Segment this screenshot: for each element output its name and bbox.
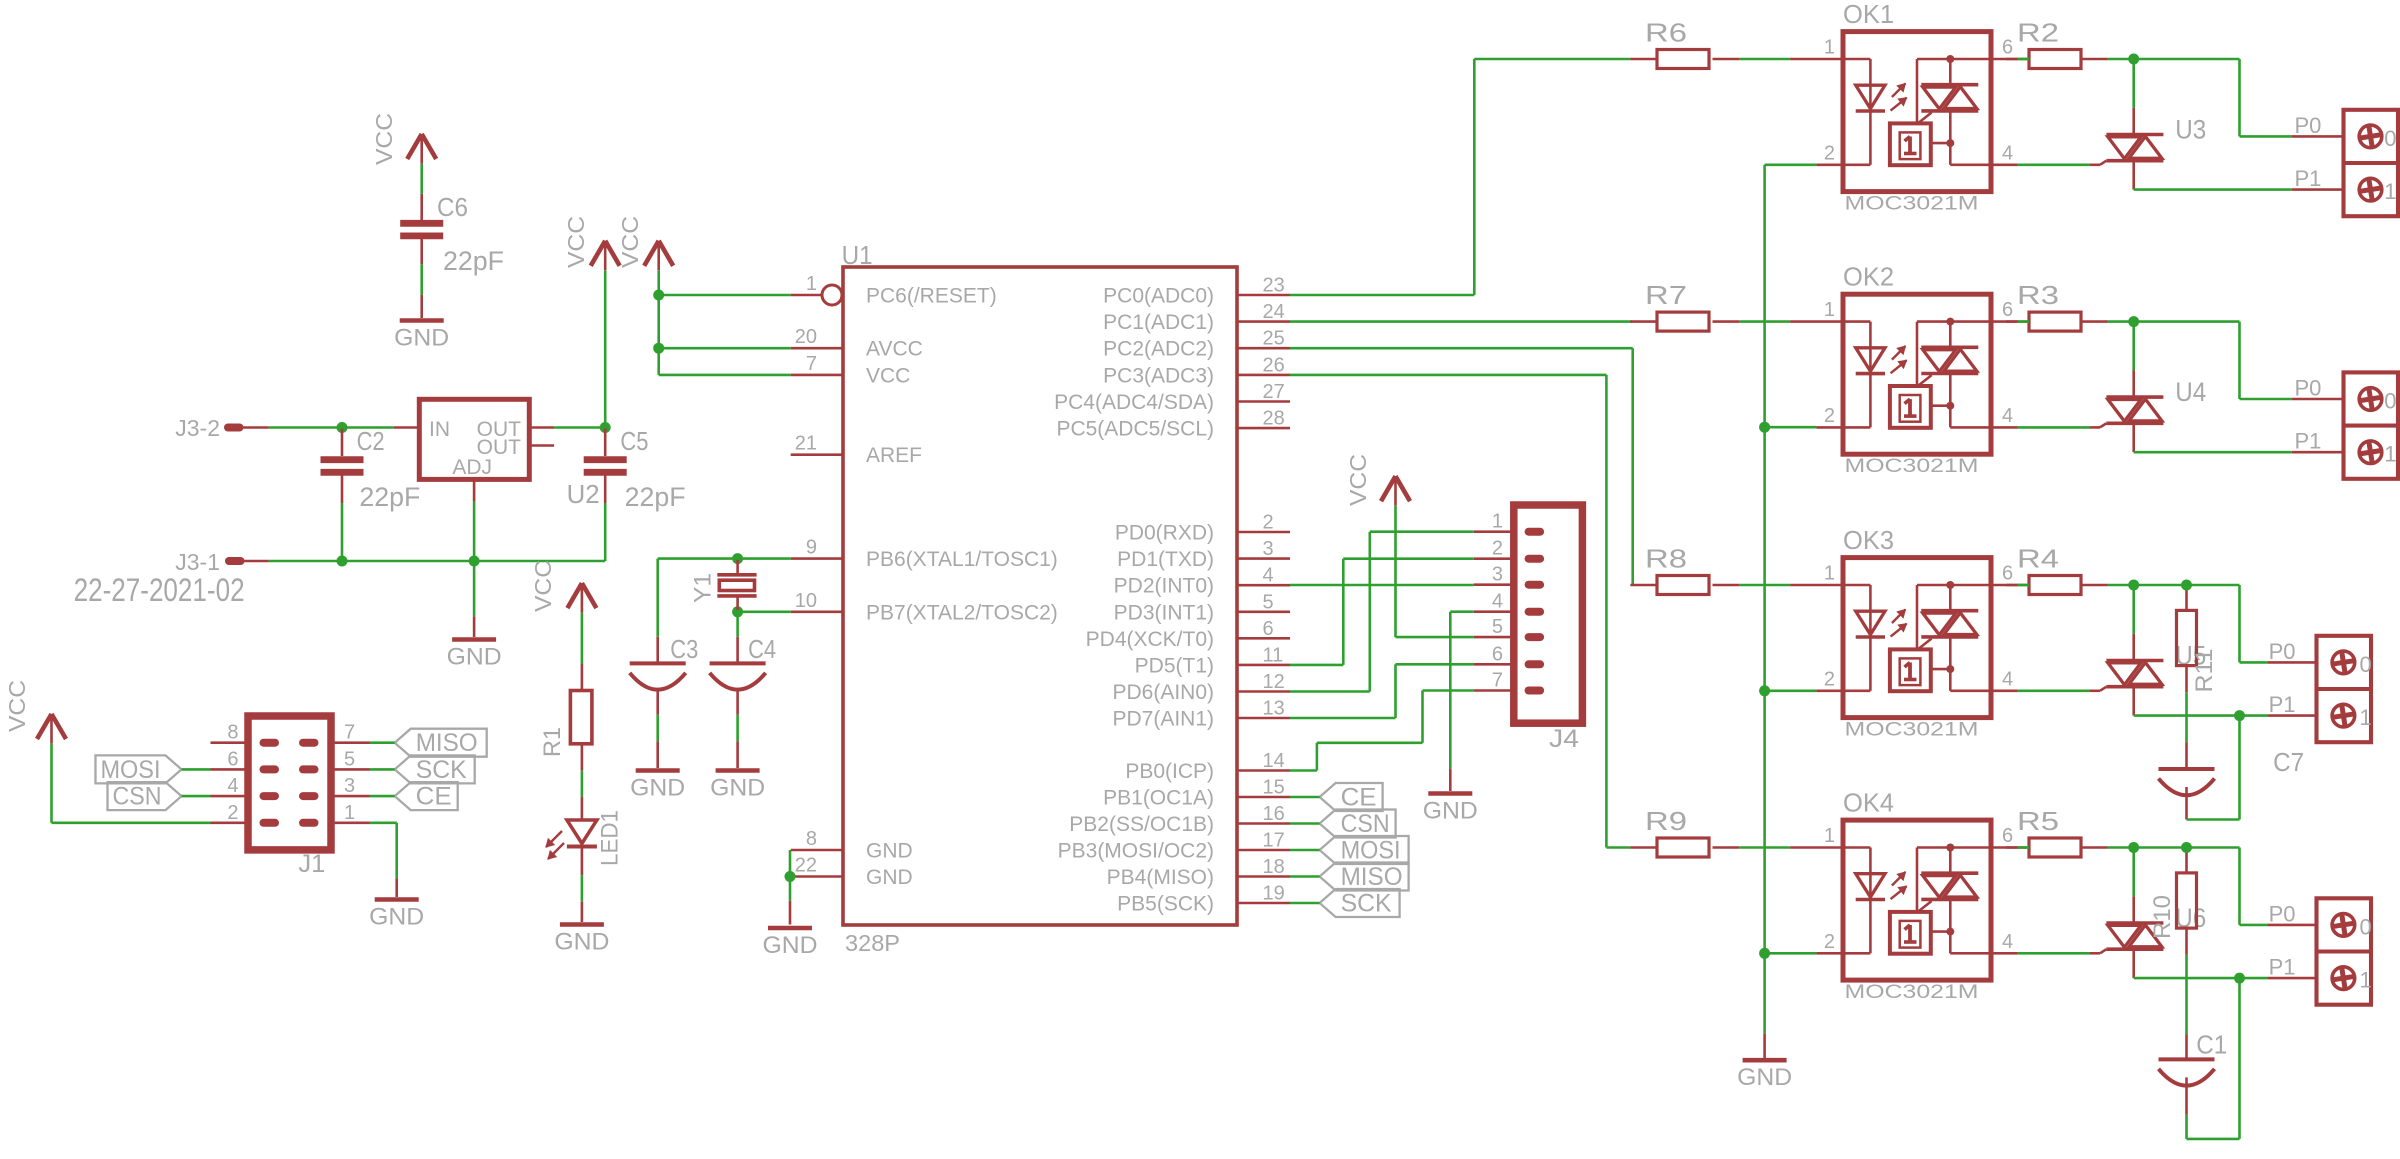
- pin J3-1: [175, 549, 268, 575]
- junction: [1759, 948, 1770, 959]
- wire J4 pin4 to ground: [1450, 612, 1473, 791]
- wire: [604, 271, 607, 428]
- wire pin23 to R6: [1290, 59, 1630, 295]
- wire gate: [2018, 689, 2090, 692]
- resistor R8: [1630, 544, 1739, 595]
- crystal Y1: [690, 560, 757, 610]
- resistor R9: [1630, 806, 1739, 857]
- junction: [2128, 54, 2139, 65]
- flag MISO (U1): [1320, 863, 1409, 892]
- svg-text:24: 24: [1263, 301, 1285, 323]
- svg-text:3: 3: [1492, 564, 1503, 586]
- junction: [2181, 842, 2192, 853]
- wire: [370, 795, 395, 798]
- wire to P1: [2134, 161, 2344, 190]
- U1 pin 24 PC1(ADC1): [1103, 301, 1290, 334]
- junction: [2128, 580, 2139, 591]
- wire: [1290, 822, 1320, 825]
- U1 pin 14 PB0(ICP): [1125, 750, 1290, 783]
- wire: [370, 741, 395, 744]
- svg-text:P1: P1: [2269, 955, 2296, 980]
- J4 pin 4: [1474, 591, 1544, 616]
- svg-text:MISO: MISO: [416, 729, 478, 757]
- svg-text:J3-2: J3-2: [175, 415, 220, 441]
- svg-text:OK2: OK2: [1843, 262, 1894, 292]
- svg-text:CE: CE: [416, 783, 452, 811]
- wire: [789, 850, 792, 925]
- junction: [653, 343, 664, 354]
- wire to P0: [2134, 585, 2317, 662]
- svg-text:R7: R7: [1645, 280, 1687, 310]
- wire: [656, 715, 659, 768]
- svg-text:1: 1: [1492, 511, 1503, 533]
- J1 pin 4: [211, 775, 249, 797]
- svg-text:1: 1: [1824, 825, 1835, 847]
- svg-text:SCK: SCK: [1341, 890, 1392, 918]
- power VCC (J1): [4, 680, 66, 744]
- U1 pin 25 PC2(ADC2): [1103, 328, 1290, 361]
- svg-text:13: 13: [1263, 698, 1285, 720]
- wire: [269, 560, 342, 563]
- svg-text:4: 4: [2002, 142, 2013, 164]
- wire: [2018, 320, 2029, 323]
- svg-text:PD3(INT1): PD3(INT1): [1114, 601, 1214, 624]
- power VCC (J4): [1345, 454, 1410, 506]
- ground (J4): [1423, 794, 1478, 825]
- svg-text:0: 0: [2360, 914, 2372, 939]
- svg-text:4: 4: [2002, 931, 2013, 953]
- U1 pin 27 PC4(ADC4/SDA): [1054, 381, 1290, 414]
- svg-text:6: 6: [2002, 299, 2013, 321]
- svg-text:22: 22: [795, 855, 817, 877]
- ground (C3): [630, 771, 685, 802]
- U1 pin 2 PD0(RXD): [1115, 512, 1290, 545]
- power VCC (C6): [371, 113, 436, 165]
- svg-text:2: 2: [1824, 668, 1835, 690]
- U1 pin 13 PD7(AIN1): [1112, 698, 1290, 731]
- svg-text:MOC3021M: MOC3021M: [1845, 456, 1979, 477]
- svg-text:C2: C2: [357, 426, 385, 456]
- U1 pin 5 PD3(INT1): [1114, 591, 1290, 624]
- svg-text:GND: GND: [554, 929, 609, 956]
- svg-text:14: 14: [1263, 750, 1285, 772]
- svg-text:5: 5: [344, 748, 355, 770]
- svg-text:OK1: OK1: [1843, 0, 1894, 29]
- microcontroller U1: [842, 240, 1237, 956]
- svg-text:VCC: VCC: [530, 560, 556, 612]
- svg-text:5: 5: [1263, 591, 1274, 613]
- svg-text:15: 15: [1263, 777, 1285, 799]
- svg-text:GND: GND: [866, 840, 913, 863]
- triac U4: [2090, 322, 2206, 428]
- svg-text:SCK: SCK: [416, 756, 467, 784]
- junction: [2234, 973, 2245, 984]
- capacitor C7: [2159, 747, 2305, 820]
- svg-text:P1: P1: [2295, 166, 2322, 191]
- svg-text:PC3(ADC3): PC3(ADC3): [1103, 364, 1214, 387]
- wire: [370, 768, 395, 771]
- voltage regulator U2: [394, 399, 600, 509]
- svg-text:0: 0: [2384, 126, 2396, 151]
- svg-text:21: 21: [795, 433, 817, 455]
- svg-text:1: 1: [1824, 37, 1835, 59]
- junction: [2128, 842, 2139, 853]
- svg-text:U3: U3: [2175, 114, 2206, 144]
- svg-text:VCC: VCC: [617, 216, 643, 268]
- svg-text:GND: GND: [866, 866, 913, 889]
- svg-text:R1: R1: [539, 727, 566, 757]
- wire gate: [2018, 426, 2090, 429]
- svg-text:11: 11: [1263, 644, 1284, 666]
- svg-text:16: 16: [1263, 803, 1285, 825]
- flag CSN (J1): [108, 782, 182, 811]
- svg-text:PC2(ADC2): PC2(ADC2): [1103, 338, 1214, 361]
- U1 pin 21 AREF: [791, 433, 922, 468]
- U1 pin 19 PB5(SCK): [1117, 883, 1290, 916]
- wire: [370, 823, 397, 897]
- svg-text:GND: GND: [763, 932, 818, 959]
- U1 pin 3 PD1(TXD): [1117, 538, 1290, 571]
- svg-text:10: 10: [795, 590, 817, 612]
- svg-text:C3: C3: [670, 634, 698, 664]
- wire: [1739, 320, 1790, 323]
- svg-text:18: 18: [1263, 856, 1285, 878]
- svg-text:MISO: MISO: [1341, 863, 1403, 891]
- svg-text:U1: U1: [842, 240, 873, 270]
- terminal block P0/P1 ch3: [2269, 636, 2372, 742]
- terminal block P0/P1 ch2: [2295, 372, 2399, 478]
- svg-text:1: 1: [1824, 563, 1835, 585]
- wire: [659, 374, 791, 377]
- resistor R7: [1630, 280, 1739, 331]
- wire: [474, 560, 605, 563]
- svg-text:R8: R8: [1645, 544, 1687, 574]
- wire pin26 to R9: [1290, 375, 1630, 848]
- svg-text:4: 4: [2002, 668, 2013, 690]
- U1 pin 28 PC5(ADC5/SCL): [1056, 408, 1290, 441]
- svg-text:22pF: 22pF: [625, 482, 686, 512]
- wire to P1: [2134, 949, 2317, 978]
- resistor R1: [539, 691, 592, 758]
- svg-text:R10: R10: [2149, 895, 2176, 939]
- J4 pin 7: [1474, 670, 1544, 695]
- svg-text:PB0(ICP): PB0(ICP): [1125, 760, 1214, 783]
- capacitor C4: [710, 634, 777, 715]
- wire: [2185, 692, 2188, 769]
- J4 pin 5: [1474, 616, 1544, 641]
- svg-text:PD6(AIN0): PD6(AIN0): [1112, 681, 1214, 704]
- svg-text:3: 3: [344, 775, 355, 797]
- wire pin11 to J4 pin2: [1290, 559, 1474, 665]
- svg-text:PD4(XCK/T0): PD4(XCK/T0): [1086, 628, 1214, 651]
- wire: [736, 715, 739, 768]
- wire: [342, 560, 474, 563]
- flag CSN (U1): [1320, 810, 1396, 839]
- wire VCC to J4 pin5: [1396, 506, 1474, 637]
- wire: [2108, 846, 2134, 849]
- svg-text:4: 4: [227, 775, 238, 797]
- svg-text:19: 19: [1263, 883, 1285, 905]
- svg-text:R2: R2: [2017, 18, 2059, 48]
- svg-text:PB3(MOSI/OC2): PB3(MOSI/OC2): [1058, 840, 1214, 863]
- svg-text:4: 4: [1263, 565, 1274, 587]
- svg-text:GND: GND: [394, 325, 449, 352]
- flag MOSI (U1): [1320, 836, 1409, 865]
- junction: [337, 422, 348, 433]
- junction: [1759, 685, 1770, 696]
- svg-text:MOSI: MOSI: [101, 756, 161, 784]
- resistor R2: [2006, 18, 2108, 69]
- wire: [1739, 846, 1790, 849]
- wire gate: [2018, 952, 2090, 955]
- ground (opto rail): [1737, 1060, 1792, 1091]
- svg-text:PB5(SCK): PB5(SCK): [1117, 893, 1214, 916]
- svg-text:PD2(INT0): PD2(INT0): [1114, 575, 1214, 598]
- junction: [600, 422, 611, 433]
- svg-text:CE: CE: [1341, 784, 1377, 812]
- svg-text:26: 26: [1263, 354, 1285, 376]
- svg-text:23: 23: [1263, 275, 1285, 297]
- svg-text:9: 9: [806, 537, 817, 559]
- svg-text:C1: C1: [2196, 1029, 2227, 1059]
- junction: [1759, 422, 1770, 433]
- U1 pin 22 GND: [791, 855, 913, 890]
- J1 pin 5: [331, 748, 370, 770]
- svg-text:6: 6: [2002, 37, 2013, 59]
- svg-text:C4: C4: [748, 634, 776, 664]
- svg-text:AREF: AREF: [866, 444, 922, 467]
- U1 pin 9 PB6(XTAL1/TOSC1): [791, 537, 1058, 572]
- junction: [2128, 316, 2139, 327]
- svg-text:28: 28: [1263, 408, 1285, 430]
- J1 pin 8: [211, 722, 249, 744]
- resistor R11: [2177, 585, 2219, 693]
- wire: [473, 502, 476, 561]
- wire gate: [2018, 164, 2090, 167]
- wire: [2185, 955, 2188, 1060]
- U1 pin 10 PB7(XTAL2/TOSC2): [791, 590, 1058, 625]
- svg-text:P0: P0: [2295, 113, 2322, 138]
- U1 pin 18 PB4(MISO): [1107, 856, 1290, 889]
- svg-text:OK4: OK4: [1843, 788, 1894, 818]
- svg-text:VCC: VCC: [563, 216, 589, 268]
- junction: [653, 290, 664, 301]
- J4 pin 3: [1474, 564, 1544, 589]
- wire: [2018, 584, 2029, 587]
- U1 pin 17 PB3(MOSI/OC2): [1058, 830, 1290, 863]
- svg-text:1: 1: [2360, 968, 2372, 993]
- wire: [581, 744, 584, 820]
- capacitor C3: [630, 634, 699, 715]
- wire: [2187, 716, 2240, 820]
- svg-text:1: 1: [2384, 442, 2396, 467]
- wire: [1290, 875, 1320, 878]
- svg-text:MOC3021M: MOC3021M: [1845, 194, 1979, 215]
- ground (LED1): [554, 925, 609, 956]
- svg-text:GND: GND: [1423, 798, 1478, 825]
- svg-text:U2: U2: [567, 479, 600, 509]
- svg-text:1: 1: [2384, 179, 2396, 204]
- U1 pin 26 PC3(ADC3): [1103, 354, 1290, 387]
- capacitor C2: [321, 426, 421, 512]
- ground (U2 ADJ): [473, 561, 476, 637]
- svg-text:2: 2: [1492, 538, 1503, 560]
- svg-text:MOC3021M: MOC3021M: [1845, 720, 1979, 741]
- svg-text:PB6(XTAL1/TOSC1): PB6(XTAL1/TOSC1): [866, 548, 1058, 571]
- wire: [657, 271, 660, 375]
- triac U3: [2090, 59, 2206, 165]
- svg-text:Y1: Y1: [690, 573, 717, 603]
- wire: [738, 610, 791, 613]
- optocoupler OK2: [1790, 262, 2018, 478]
- svg-text:C5: C5: [620, 426, 648, 456]
- svg-text:C6: C6: [437, 192, 468, 222]
- svg-text:4: 4: [1492, 591, 1503, 613]
- capacitor C6: [400, 192, 504, 276]
- svg-text:LED1: LED1: [597, 810, 624, 866]
- J4 pin 2: [1474, 538, 1544, 563]
- ground (J1): [369, 900, 424, 931]
- svg-text:PC1(ADC1): PC1(ADC1): [1103, 311, 1214, 334]
- svg-text:PD1(TXD): PD1(TXD): [1117, 548, 1214, 571]
- resistor R5: [2006, 806, 2108, 857]
- power VCC (R1): [530, 560, 596, 613]
- U1 pin 7 VCC: [791, 353, 911, 388]
- svg-text:PB4(MISO): PB4(MISO): [1107, 866, 1214, 889]
- svg-text:OK3: OK3: [1843, 525, 1894, 555]
- svg-text:GND: GND: [1737, 1064, 1792, 1091]
- svg-text:27: 27: [1263, 381, 1285, 403]
- svg-text:VCC: VCC: [371, 113, 397, 165]
- J4 pin 1: [1474, 511, 1544, 536]
- svg-text:P0: P0: [2295, 376, 2322, 401]
- wire: [2018, 58, 2029, 61]
- svg-text:12: 12: [1263, 671, 1285, 693]
- svg-text:25: 25: [1263, 328, 1285, 350]
- junction: [469, 556, 480, 567]
- svg-text:GND: GND: [369, 904, 424, 931]
- svg-text:0: 0: [2360, 652, 2372, 677]
- svg-text:0: 0: [2384, 389, 2396, 414]
- wire to P0: [2134, 59, 2344, 136]
- wire: [1290, 849, 1320, 852]
- wire: [420, 164, 423, 221]
- optocoupler OK4: [1790, 788, 2018, 1004]
- wire: [2108, 320, 2134, 323]
- svg-text:7: 7: [1492, 670, 1503, 692]
- flag CE (U1): [1320, 783, 1383, 812]
- wire: [658, 559, 791, 637]
- wire pin25 to R8: [1290, 348, 1633, 585]
- svg-text:PB7(XTAL2/TOSC2): PB7(XTAL2/TOSC2): [866, 601, 1058, 624]
- svg-text:P1: P1: [2269, 692, 2296, 717]
- svg-text:6: 6: [227, 748, 238, 770]
- ground (C4): [710, 771, 765, 802]
- svg-text:IN: IN: [429, 418, 450, 441]
- junction: [732, 553, 743, 564]
- wire to P1: [2134, 423, 2344, 452]
- flag MOSI (J1): [96, 755, 182, 784]
- svg-text:20: 20: [795, 326, 817, 348]
- wire: [341, 503, 344, 561]
- svg-text:MOC3021M: MOC3021M: [1845, 982, 1979, 1003]
- svg-text:6: 6: [2002, 825, 2013, 847]
- svg-text:3: 3: [1263, 538, 1274, 560]
- resistor R4: [2006, 544, 2108, 595]
- svg-text:6: 6: [2002, 563, 2013, 585]
- wire to P0: [2134, 848, 2317, 925]
- wire pin24 to R7: [1290, 320, 1632, 323]
- svg-text:8: 8: [806, 828, 817, 850]
- wire: [2018, 846, 2029, 849]
- wire: [182, 768, 211, 771]
- svg-text:4: 4: [2002, 405, 2013, 427]
- U1 pin 12 PD6(AIN0): [1112, 671, 1290, 704]
- svg-text:328P: 328P: [845, 930, 900, 956]
- svg-text:2: 2: [1824, 931, 1835, 953]
- power VCC (U1): [617, 216, 673, 270]
- junction: [337, 556, 348, 567]
- wire: [1290, 902, 1320, 905]
- svg-text:C7: C7: [2273, 747, 2304, 777]
- U1 pin 16 PB2(SS/OC1B): [1069, 803, 1290, 836]
- U1 pin 6 PD4(XCK/T0): [1086, 618, 1290, 651]
- svg-text:5: 5: [1492, 616, 1503, 638]
- flag MISO (J1): [395, 729, 487, 758]
- svg-text:GND: GND: [710, 775, 765, 802]
- svg-text:J4: J4: [1549, 725, 1579, 753]
- flag SCK (J1): [395, 755, 475, 784]
- U1 pin 20 AVCC: [791, 326, 923, 361]
- svg-text:1: 1: [2360, 705, 2372, 730]
- svg-text:AVCC: AVCC: [866, 338, 923, 361]
- terminal block P0/P1 ch1: [2295, 110, 2399, 216]
- wire: [2187, 978, 2240, 1139]
- wire pin14 to J4 pin7: [1290, 691, 1474, 771]
- svg-text:1: 1: [806, 273, 817, 295]
- power VCC (C5/OUT): [563, 216, 620, 270]
- resistor R6: [1630, 18, 1739, 69]
- connector J1: [248, 716, 331, 878]
- wire: [52, 744, 249, 823]
- J4 pin 6: [1474, 643, 1544, 668]
- svg-text:22pF: 22pF: [359, 482, 420, 512]
- wire: [659, 347, 791, 350]
- wire: [604, 503, 607, 561]
- svg-text:22pF: 22pF: [443, 246, 504, 276]
- triac U6: [2090, 848, 2206, 954]
- svg-text:PC4(ADC4/SDA): PC4(ADC4/SDA): [1054, 391, 1214, 414]
- svg-text:PB2(SS/OC1B): PB2(SS/OC1B): [1069, 813, 1214, 836]
- optocoupler OK3: [1790, 525, 2018, 741]
- svg-text:7: 7: [806, 353, 817, 375]
- svg-text:R4: R4: [2017, 544, 2059, 574]
- flag CE (J1): [395, 782, 458, 811]
- svg-text:VCC: VCC: [866, 364, 910, 387]
- svg-text:CSN: CSN: [1341, 810, 1390, 838]
- connector J4: [1514, 505, 1583, 753]
- svg-text:P1: P1: [2295, 429, 2322, 454]
- svg-text:PC6(/RESET): PC6(/RESET): [866, 285, 997, 308]
- wire: [554, 426, 605, 429]
- svg-text:PC5(ADC5/SCL): PC5(ADC5/SCL): [1056, 418, 1214, 441]
- svg-text:P0: P0: [2269, 901, 2296, 926]
- flag SCK (U1): [1320, 889, 1400, 918]
- wire: [1739, 58, 1790, 61]
- J1 pin 3: [331, 775, 370, 797]
- svg-text:22-27-2021-02: 22-27-2021-02: [74, 572, 245, 608]
- wire: [1290, 796, 1320, 799]
